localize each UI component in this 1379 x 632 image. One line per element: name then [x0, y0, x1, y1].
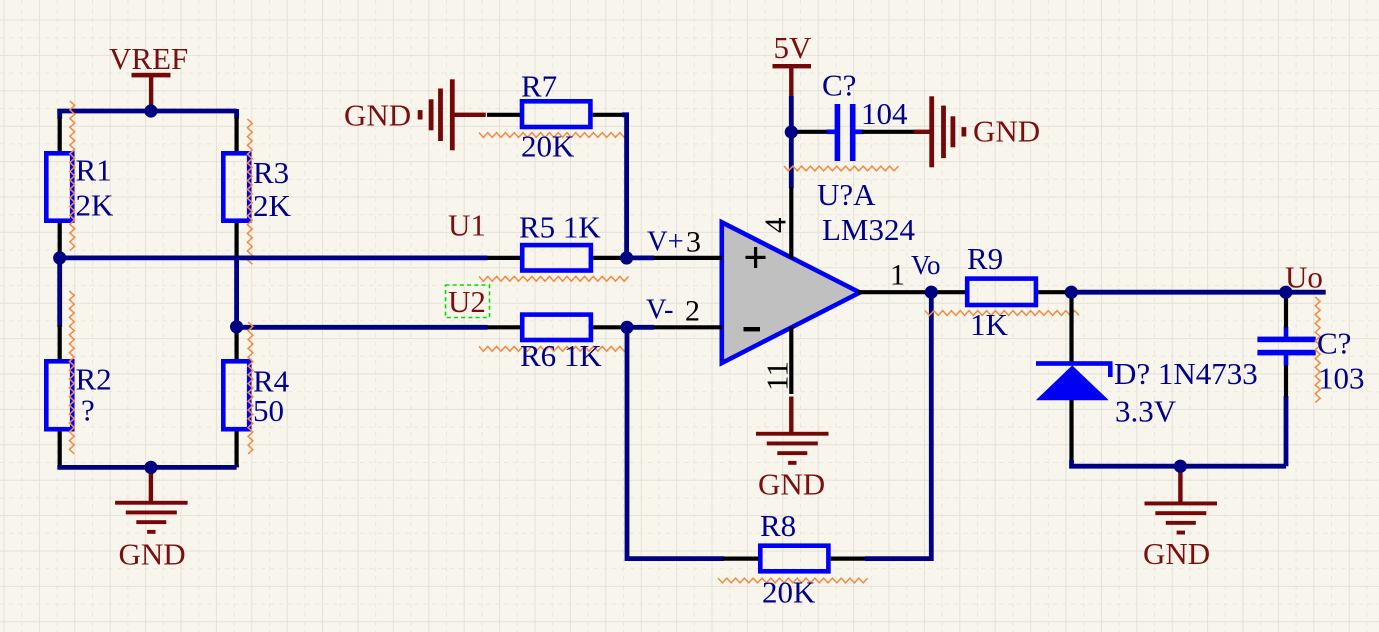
svg-text:C?: C?: [1317, 326, 1351, 361]
resistor R1: [46, 153, 72, 220]
pin R9.1: [931, 290, 965, 294]
node U1 rail / wire to R5: [58, 255, 488, 260]
pin R3.1: [235, 117, 239, 152]
junction R9-D node: [1065, 286, 1078, 299]
pin R4.2: [235, 432, 239, 466]
wire R3 top stub: [234, 109, 239, 119]
resistor R3: [223, 153, 249, 220]
junction Uo node: [1279, 286, 1292, 299]
svg-text:2K: 2K: [253, 188, 292, 223]
wire V+ node to op-amp: [627, 255, 654, 260]
wire R1 top stub: [57, 109, 62, 119]
selection box around U2: [446, 285, 490, 318]
svg-text:5V: 5V: [774, 30, 813, 65]
ground GND right: [1178, 466, 1182, 503]
wire output rail to Uo: [1071, 290, 1325, 295]
svg-text:20K: 20K: [521, 129, 575, 164]
svg-text:C?: C?: [822, 68, 856, 103]
resistor R7: [522, 101, 590, 127]
svg-text:103: 103: [1318, 361, 1365, 396]
wire R2 column: [57, 258, 62, 327]
svg-text:U1: U1: [448, 208, 486, 243]
wire V- node to op-amp: [627, 325, 654, 330]
svg-text:R6 1K: R6 1K: [520, 338, 602, 373]
wire C103 to bottom rail: [1284, 396, 1289, 466]
svg-text:3.3V: 3.3V: [1115, 394, 1177, 429]
pin D anode: [1069, 400, 1073, 462]
pin R1.1: [58, 117, 62, 152]
pin R3.2: [235, 223, 239, 259]
capacitor C? 103: [1284, 355, 1289, 366]
pin C104.2: [862, 130, 915, 134]
junction bottom GND node: [144, 461, 157, 474]
svg-text:3: 3: [686, 226, 701, 259]
pin R7.2: [593, 113, 624, 117]
pin R7.1: [487, 113, 520, 117]
svg-text:GND: GND: [973, 114, 1040, 149]
op-amp minus marking: [744, 327, 761, 331]
svg-text:V-: V-: [646, 295, 673, 326]
svg-text:GND: GND: [119, 537, 186, 572]
pin R2.2: [58, 432, 62, 466]
svg-text:1: 1: [890, 259, 905, 292]
wire bottom rail: [57, 465, 236, 470]
pin op-amp 2 stub: [654, 325, 722, 329]
pin D cathode: [1069, 292, 1073, 363]
junction 5V node: [785, 125, 798, 138]
wire D to bottom rail: [1072, 460, 1287, 466]
junction R3-R4 node U2: [230, 320, 243, 333]
junction VREF node: [144, 104, 157, 117]
svg-text:U2: U2: [448, 284, 486, 319]
wire R7 to V+ node: [622, 115, 627, 258]
resistor R2: [46, 361, 72, 429]
svg-text:GND: GND: [758, 467, 825, 502]
svg-text:R7: R7: [521, 69, 557, 104]
pin R5.1: [488, 256, 521, 260]
resistor R8: [760, 546, 828, 572]
pin R5.2: [593, 256, 626, 260]
ground GND middle: [789, 397, 793, 434]
svg-text:2K: 2K: [76, 188, 115, 223]
svg-text:?: ?: [81, 393, 95, 428]
pin op-amp 11: [789, 327, 793, 394]
pin R6.2: [593, 325, 627, 329]
ground GND at C104: [914, 130, 932, 134]
pin R2.1: [58, 325, 62, 360]
svg-text:GND: GND: [344, 98, 411, 133]
svg-text:50: 50: [253, 393, 284, 428]
pin R6.1: [488, 325, 521, 329]
svg-text:4: 4: [758, 217, 793, 233]
resistor R5: [522, 245, 591, 270]
junction right GND node: [1174, 460, 1187, 473]
svg-text:11: 11: [760, 361, 795, 391]
svg-text:R9: R9: [967, 241, 1003, 276]
node U2 wire to R6: [237, 325, 488, 330]
svg-text:U?A: U?A: [817, 177, 876, 212]
svg-text:R5 1K: R5 1K: [519, 210, 601, 245]
svg-text:1K: 1K: [970, 307, 1009, 342]
junction Vo node: [925, 286, 938, 299]
diode D? 1N4733 zener: [1036, 361, 1113, 366]
svg-text:2: 2: [685, 295, 700, 328]
ground GND left: [149, 467, 153, 503]
resistor R4: [223, 361, 249, 429]
pin op-amp 3 stub: [654, 256, 722, 260]
pin op-amp 4: [789, 187, 793, 259]
svg-text:LM324: LM324: [822, 212, 916, 247]
resistor R9: [967, 279, 1036, 305]
svg-text:GND: GND: [1143, 536, 1210, 571]
pin R9.2: [1038, 290, 1071, 294]
op-amp U?A LM324: [722, 222, 860, 363]
svg-text:R1: R1: [76, 153, 112, 188]
svg-text:R8: R8: [760, 508, 796, 543]
wire R3-R4 link: [234, 258, 239, 327]
junction V- node: [620, 321, 633, 334]
svg-text:Vo: Vo: [911, 250, 941, 280]
wire R8 to Vo node: [865, 292, 931, 558]
svg-text:D? 1N4733: D? 1N4733: [1114, 356, 1258, 391]
pin op-amp 1 output: [858, 290, 931, 294]
wire top rail: [57, 109, 236, 114]
pin R1.2: [58, 223, 62, 258]
pin R4.1: [235, 327, 239, 360]
svg-text:R3: R3: [253, 155, 289, 190]
op-amp plus marking: [746, 256, 766, 259]
svg-text:V+: V+: [647, 227, 684, 258]
pin R8.2: [831, 556, 866, 560]
svg-text:VREF: VREF: [109, 41, 188, 76]
junction R1-R2 node U1: [53, 251, 66, 264]
pin R8.1: [723, 556, 759, 560]
resistor R6: [522, 315, 591, 340]
junction V+ node: [620, 251, 633, 264]
wire 5V column: [789, 96, 794, 188]
svg-text:20K: 20K: [762, 575, 816, 610]
capacitor C? 104: [827, 130, 836, 135]
pin C104.1: [791, 130, 828, 134]
svg-text:R2: R2: [76, 362, 112, 397]
svg-text:104: 104: [861, 96, 908, 131]
wire V- node down to R8: [627, 327, 724, 558]
pin C103.1: [1284, 295, 1288, 328]
pin C103.2: [1284, 365, 1288, 398]
